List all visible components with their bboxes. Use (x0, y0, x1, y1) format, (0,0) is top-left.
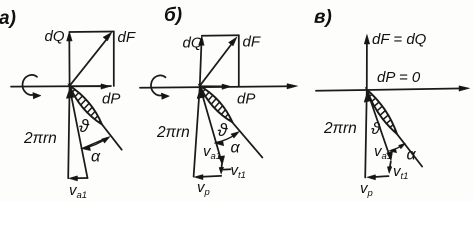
label v_t1 (231, 162, 246, 181)
blade airfoil (70, 86, 103, 125)
angle arc (217, 134, 237, 143)
dash to v_t1 (224, 168, 231, 170)
vector dF=dQ up (366, 40, 368, 90)
svg-text:dF: dF (118, 29, 136, 46)
blade hatching (203, 89, 231, 120)
angle arc (392, 145, 404, 150)
label a) (0, 8, 16, 29)
curl arrowhead (33, 93, 41, 99)
bottom arrow (372, 176, 389, 177)
svg-text:а): а) (0, 8, 16, 29)
label v) (314, 7, 332, 28)
vector dP (70, 85, 105, 87)
rect right side (238, 35, 240, 86)
vector dF (200, 42, 234, 86)
vector dQ (68, 38, 70, 86)
rect top side (69, 31, 114, 34)
svg-text:ϑ: ϑ (371, 119, 381, 138)
kink to bottom (220, 164, 223, 171)
bottom arrow (200, 176, 222, 177)
label v_t1 (393, 163, 408, 182)
svg-text:dP: dP (237, 91, 255, 108)
svg-text:dQ: dQ (183, 35, 203, 52)
chord line extension (232, 122, 262, 157)
svg-text:ϑ: ϑ (79, 116, 90, 136)
svg-text:2πrn: 2πrn (156, 124, 190, 141)
vector v_a1 slanted (200, 86, 222, 163)
label dP (102, 91, 120, 108)
label alpha (231, 140, 241, 157)
label v_a1 (69, 182, 87, 201)
vector dF (70, 37, 109, 86)
label dP=0 (377, 69, 421, 86)
label dQ (45, 28, 65, 45)
svg-text:в): в) (314, 7, 332, 28)
label 2pirn (156, 124, 190, 141)
blade airfoil (200, 86, 233, 123)
rect top side (202, 34, 239, 36)
svg-text:б): б) (164, 5, 182, 26)
svg-text:α: α (407, 147, 417, 164)
label alpha (407, 147, 417, 164)
blade hatching (73, 89, 101, 122)
svg-text:2πrn: 2πrn (23, 130, 57, 147)
label dQ (183, 35, 203, 52)
svg-text:dF: dF (243, 34, 261, 51)
svg-text:2πrn: 2πrn (323, 120, 357, 137)
blade airfoil (367, 90, 397, 134)
label v_a1 (203, 143, 221, 162)
svg-text:dP: dP (102, 91, 120, 108)
vector dQ (200, 42, 202, 86)
bottom arrow (74, 177, 88, 179)
angle arc (84, 138, 108, 148)
label dP (237, 91, 255, 108)
vertical line below origin (365, 90, 367, 178)
svg-text:ϑ: ϑ (218, 120, 229, 140)
axis horizontal (316, 88, 464, 90)
label b) (164, 5, 182, 26)
label dF=dQ (372, 31, 427, 48)
label v_p (197, 179, 210, 198)
label dF (243, 34, 261, 51)
vector v1 into origin (slanted) (71, 92, 88, 178)
rect right side (113, 32, 115, 87)
label theta (218, 120, 229, 140)
svg-text:dQ: dQ (45, 28, 65, 45)
label v_a1 (374, 143, 392, 162)
label alpha (91, 149, 101, 166)
vertical line below origin (194, 86, 200, 177)
label v_p (360, 180, 373, 199)
vertical line below origin (68, 86, 69, 178)
svg-text:α: α (231, 140, 241, 157)
vector dP (200, 85, 226, 87)
label 2pirn (323, 120, 357, 137)
label theta (371, 119, 381, 138)
blade hatching (370, 94, 396, 131)
axis horizontal (11, 85, 111, 88)
rotation curl (23, 75, 37, 95)
chord line extension (397, 134, 422, 167)
rotation curl (151, 75, 165, 95)
label dF (118, 29, 136, 46)
svg-text:dF = dQ: dF = dQ (372, 31, 427, 48)
svg-text:α: α (91, 149, 101, 166)
kink to bottom (389, 162, 391, 171)
axis horizontal (140, 86, 292, 88)
label theta (79, 116, 90, 136)
svg-text:dP = 0: dP = 0 (377, 69, 421, 86)
chord line extension (102, 124, 122, 150)
vector v slanted (367, 90, 391, 158)
label 2pirn (23, 130, 57, 147)
